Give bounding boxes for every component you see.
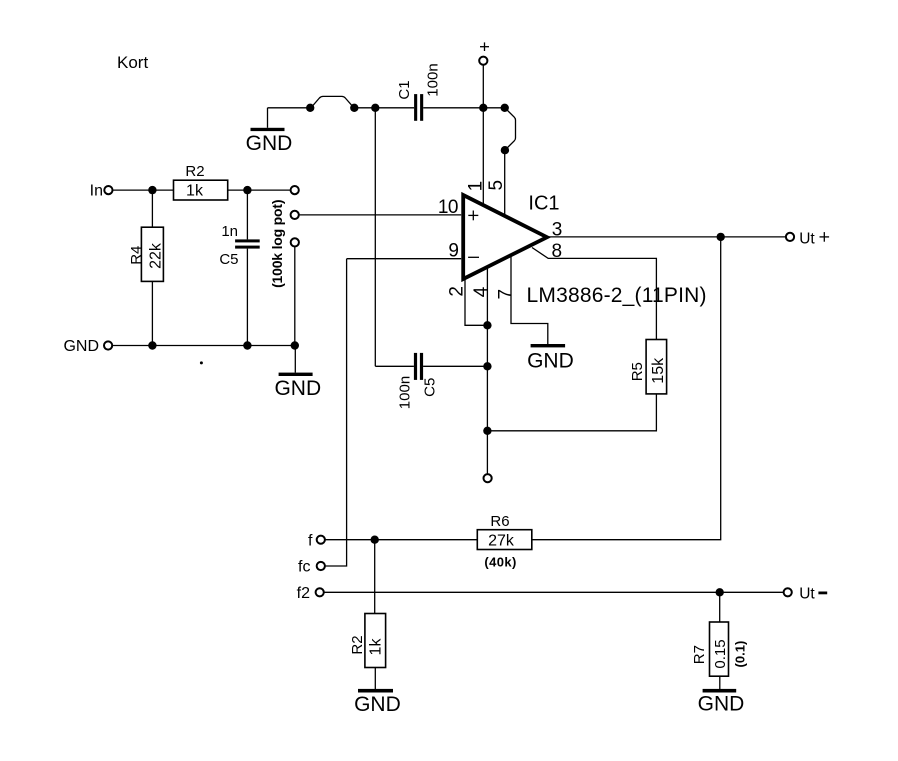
ground GND4 [354,668,401,717]
terminal mute [484,474,492,482]
wire R5 bottom to node [487,394,656,431]
svg-text:GND: GND [698,693,745,716]
wire pin 9 (inverting input) [347,258,462,260]
wire rail right [423,107,505,109]
svg-text:22k: 22k [148,242,165,269]
svg-text:LM3886-2_(11PIN): LM3886-2_(11PIN) [527,284,707,307]
node rail/+/pin1 [479,104,487,112]
terminal In [90,183,113,200]
svg-text:Ut: Ut [799,230,815,247]
ground GND2 (pot) [274,346,321,401]
svg-text:4: 4 [471,286,492,297]
node f2/R7 [716,588,724,596]
wire pin 5 [504,150,506,216]
svg-text:R6: R6 [490,513,509,530]
terminal Ut- [784,586,828,603]
capacitor C5b 100n [375,353,487,409]
svg-text:GND: GND [246,132,293,155]
wire GND row [112,345,294,347]
wire pin 7 + ground GND3 [511,256,574,373]
potentiometer connector (100k log pot) [269,186,299,288]
svg-text:f2: f2 [297,585,310,602]
svg-text:(40k): (40k) [484,555,516,570]
svg-text:GND: GND [274,377,321,400]
svg-text:C5: C5 [219,251,238,268]
svg-text:R4: R4 [128,246,145,265]
resistor R2b 1k [349,540,386,668]
wire output pin 3 [547,236,786,238]
node rail end [501,104,509,112]
terminal Ut+ [786,230,829,247]
resistor R2 1k [174,163,228,200]
svg-text:Kort: Kort [117,53,148,72]
svg-text:0.15: 0.15 [712,639,729,668]
svg-text:R2: R2 [349,635,366,654]
svg-text:f: f [308,533,313,550]
wire pin 2 [465,278,487,325]
wire fc feedback vertical [325,259,347,566]
svg-text:R2: R2 [185,163,204,180]
terminal f [308,533,325,550]
svg-text:100n: 100n [425,63,442,96]
svg-text:R7: R7 [691,645,708,664]
node GND/C5 [243,341,251,349]
wire vertical to C5b [374,108,376,367]
node R2/C5/pot [243,186,251,194]
resistor R7 0.15 [691,592,748,676]
capacitor C5 1n [219,190,259,345]
wire feedback output to R6 [532,237,721,540]
node pin2/pin4 [483,321,491,329]
svg-text:R5: R5 [629,362,646,381]
svg-text:27k: 27k [488,532,515,549]
terminal + (V+) [479,42,489,107]
svg-text:GND: GND [354,693,401,716]
svg-text:2: 2 [446,287,467,297]
svg-text:In: In [90,183,103,200]
resistor R6 27k [477,513,532,570]
wire pin 8 to R5 [532,248,656,340]
svg-text:Ut: Ut [799,586,815,603]
wire top rail left [268,107,311,109]
ground GND1 (top) [246,108,293,155]
svg-text:1: 1 [466,181,487,191]
node rail-C5 branch [371,104,379,112]
svg-text:1k: 1k [368,638,385,656]
svg-text:fc: fc [298,559,310,576]
node GND/R4 [148,341,156,349]
svg-text:10: 10 [438,197,458,218]
terminal f2 [297,585,324,602]
wire pin 1 [482,108,484,205]
svg-text:1n: 1n [221,223,238,240]
capacitor C1 100n [396,63,442,120]
stray dot [200,361,203,364]
svg-text:100n: 100n [397,376,414,409]
svg-text:GND: GND [63,338,99,355]
wire f2 row [324,591,784,593]
node In/R2/R4 [148,186,156,194]
wire pot mid to +input [299,214,461,216]
wire R2 to pot [228,189,291,191]
node GND row end [291,341,299,349]
switch S1 jumper bump [306,96,358,112]
svg-text:7: 7 [496,289,517,299]
svg-text:IC1: IC1 [528,193,559,215]
terminal fc [298,559,325,576]
svg-text:(0.1): (0.1) [733,641,748,668]
resistor R5 15k [629,340,667,394]
ground GND5 [698,676,745,715]
svg-text:(100k log pot): (100k log pot) [269,200,285,288]
svg-text:GND: GND [527,350,574,373]
terminal GND left [63,338,112,355]
svg-text:C5: C5 [422,378,439,397]
node R5 bottom wire [483,427,491,435]
node C5b [483,362,491,370]
wire f row [325,539,477,541]
resistor R4 22k [128,190,165,345]
svg-text:15k: 15k [650,357,667,384]
svg-text:1k: 1k [186,183,204,200]
svg-text:C1: C1 [396,80,413,99]
svg-text:5: 5 [486,180,507,190]
node output [717,233,725,241]
op-amp IC1 [463,193,707,307]
jumper link to pin 5 [501,108,516,155]
node f junction [371,536,379,544]
wire In row [113,189,174,191]
wire pot bottom down [294,247,296,346]
wire rail mid [354,107,414,109]
wire pin 4 / node column [486,267,488,474]
